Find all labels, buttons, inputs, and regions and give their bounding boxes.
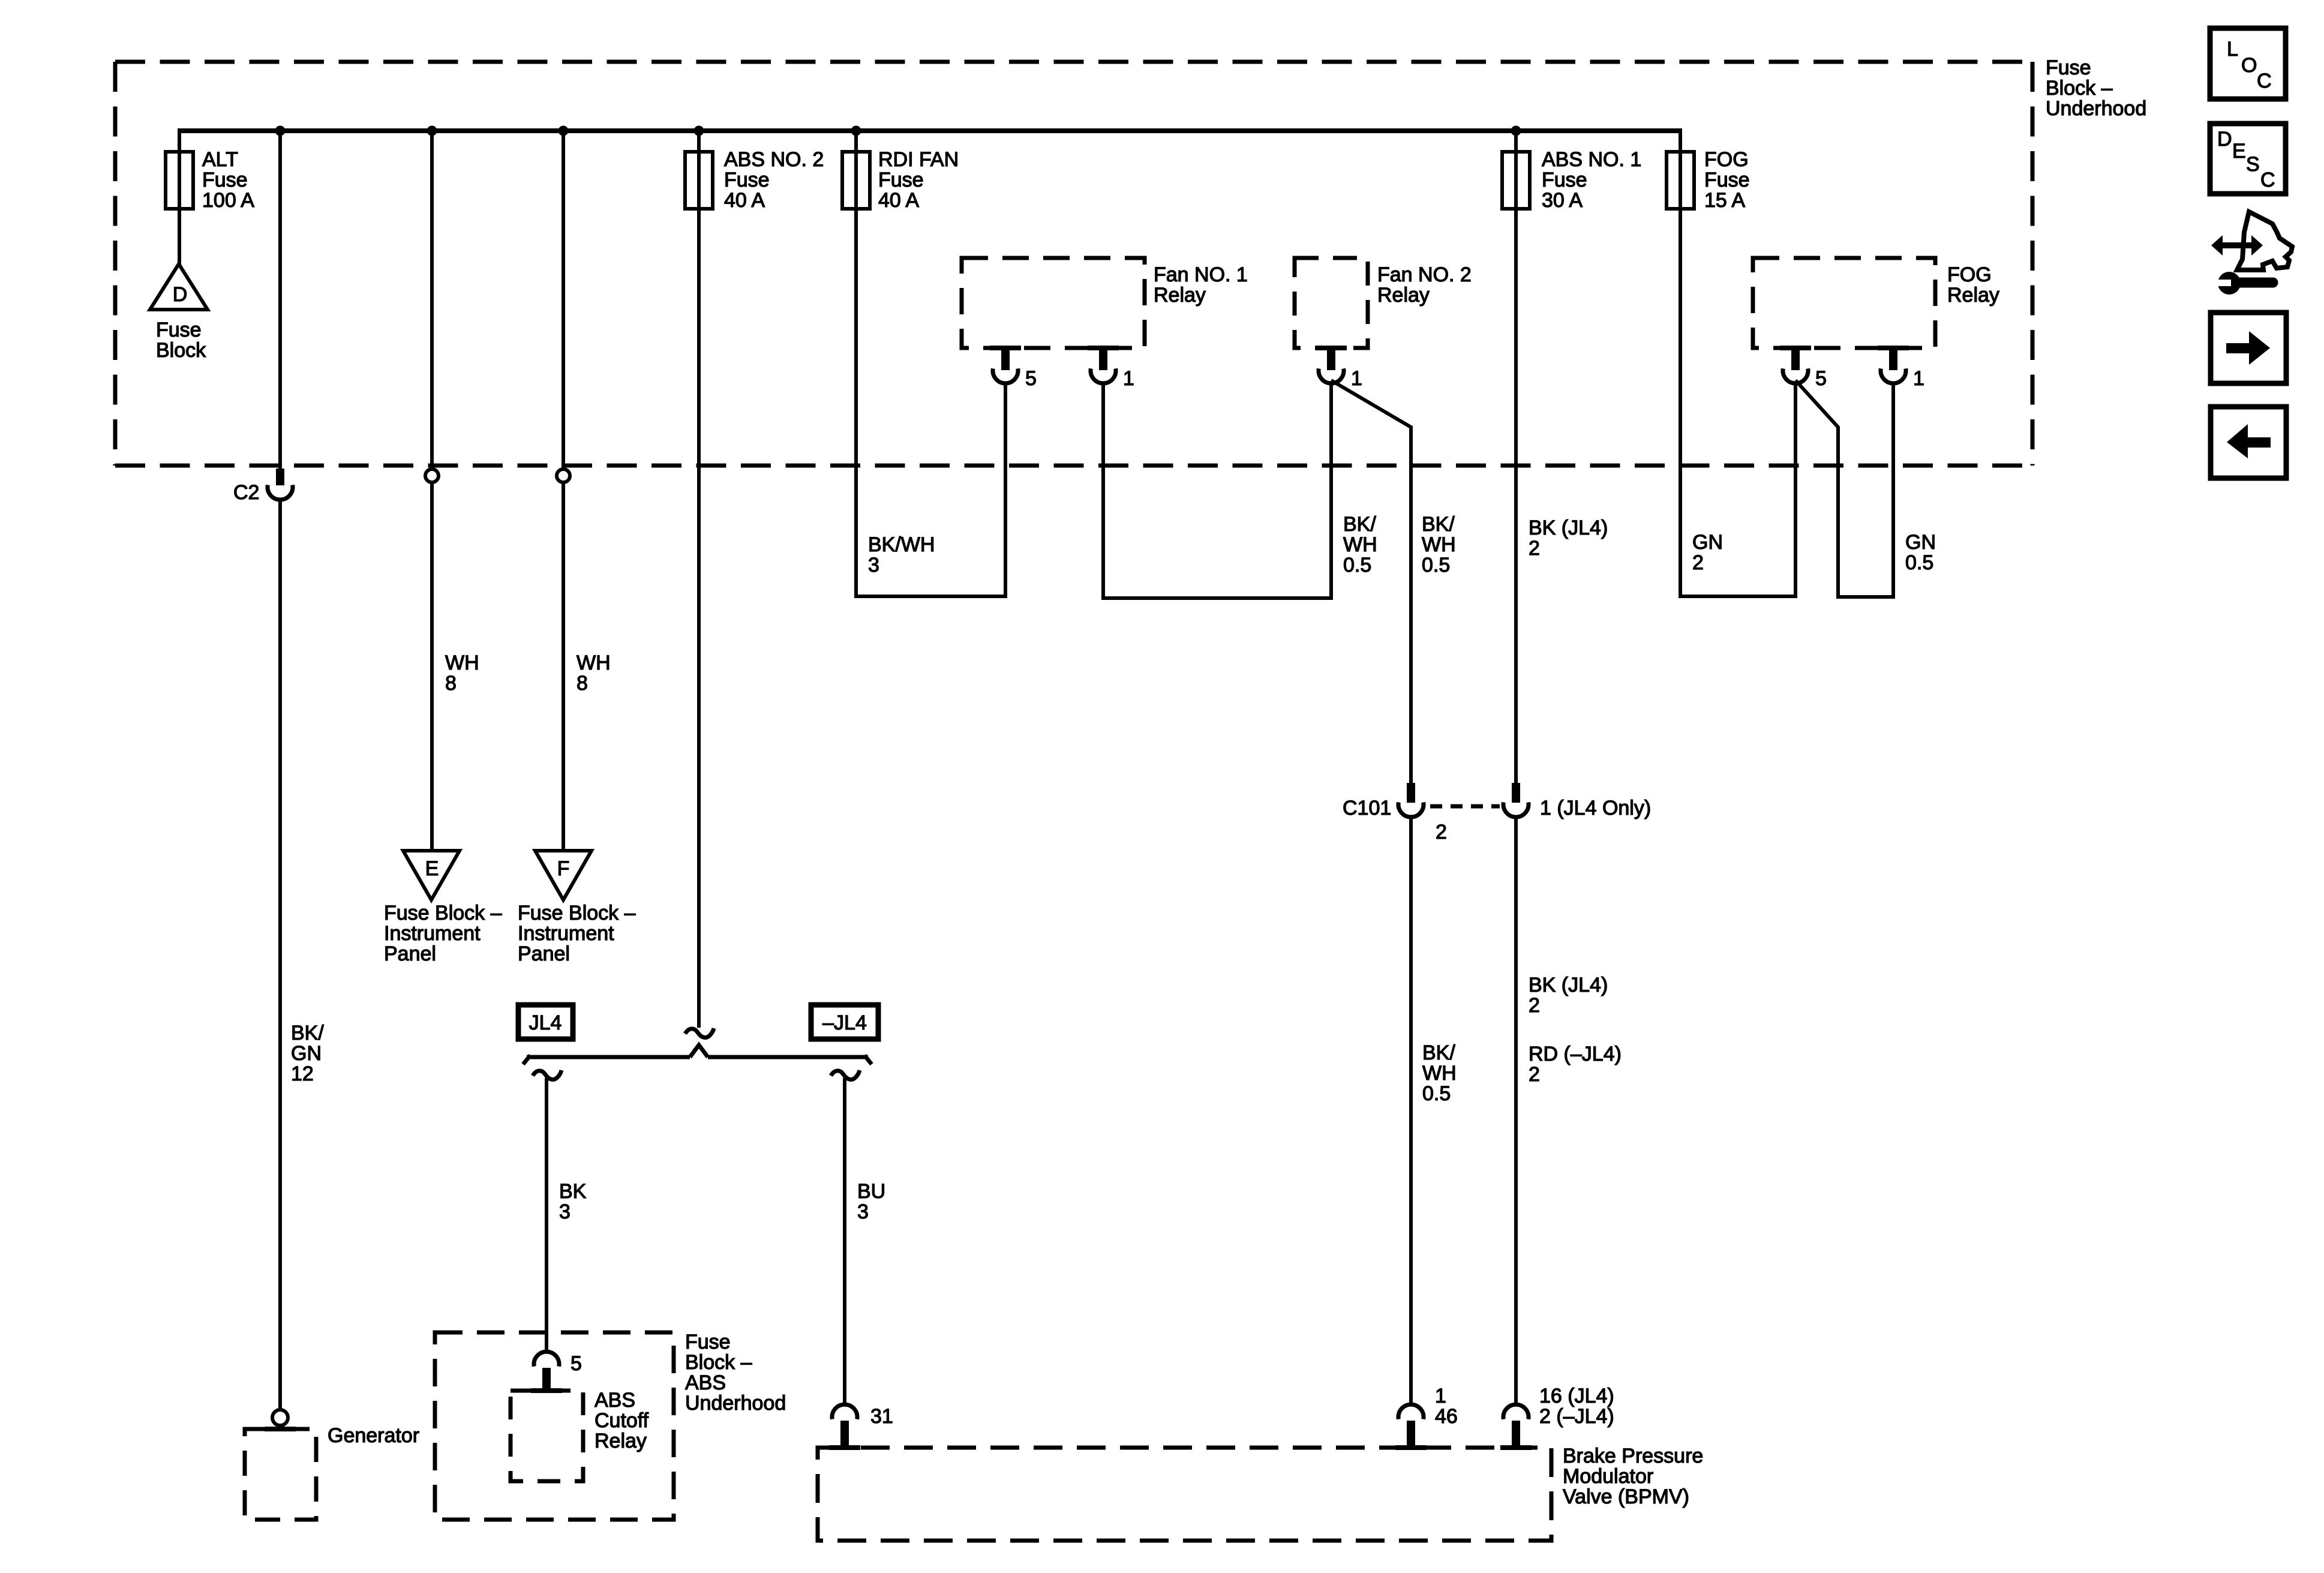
- svg-text:15 A: 15 A: [1704, 189, 1745, 212]
- svg-text:E: E: [2232, 140, 2246, 163]
- BPMV pin base bars: [829, 1445, 1532, 1450]
- wire bus to C2 connector: [278, 131, 282, 470]
- fan no.1 relay pin 1: [1088, 348, 1134, 390]
- svg-text:2: 2: [1436, 821, 1447, 843]
- FOG relay pin 1: [1878, 348, 1924, 390]
- svg-text:Panel: Panel: [384, 942, 436, 965]
- connector BPMV pin 1/46: [1398, 1385, 1458, 1446]
- C101 connector dashed divider: [1430, 804, 1500, 809]
- svg-text:D: D: [173, 283, 188, 306]
- options brace: [523, 1045, 872, 1064]
- label ABS Cutoff Relay: [594, 1389, 649, 1452]
- svg-text:3: 3: [857, 1200, 869, 1223]
- label FOG Relay: [1947, 263, 1999, 307]
- svg-text:2 (–JL4): 2 (–JL4): [1539, 1405, 1614, 1428]
- svg-text:8: 8: [445, 672, 457, 695]
- fuse block underhood dashed box: [115, 62, 2032, 466]
- svg-text:30 A: 30 A: [1542, 189, 1583, 212]
- label ALT Fuse 100 A: [202, 148, 254, 212]
- fuse ABS NO.1 30A: [1502, 152, 1530, 209]
- svg-text:ABS NO. 2: ABS NO. 2: [724, 148, 824, 171]
- svg-text:WH: WH: [1422, 533, 1456, 556]
- svg-text:Fan NO. 1: Fan NO. 1: [1154, 263, 1248, 286]
- svg-text:FOG: FOG: [1704, 148, 1749, 171]
- label BK 3: [559, 1180, 587, 1223]
- svg-text:46: 46: [1435, 1405, 1458, 1428]
- svg-text:Fuse: Fuse: [156, 319, 202, 341]
- fuse RDI FAN 40A: [842, 152, 870, 209]
- fan no.1 relay dashed box: [962, 258, 1145, 348]
- node junction dot RDI FAN: [851, 126, 861, 136]
- svg-text:ABS: ABS: [685, 1371, 726, 1394]
- svg-text:12: 12: [291, 1062, 314, 1085]
- svg-text:Panel: Panel: [518, 942, 570, 965]
- svg-text:40 A: 40 A: [724, 189, 765, 212]
- svg-text:BK/: BK/: [1422, 513, 1455, 536]
- wire C2 to generator: [278, 498, 282, 1411]
- svg-text:BK (JL4): BK (JL4): [1529, 974, 1608, 996]
- connector cup ABS cutoff relay pin 5: [534, 1352, 582, 1391]
- label Fuse Block: [156, 319, 206, 362]
- wire -JL4 branch to BPMV pin 31: [843, 1078, 846, 1406]
- icon car repair with arrow and wrench: [2211, 212, 2292, 295]
- connector BPMV pin 31: [832, 1404, 893, 1446]
- label FOG Fuse 15 A: [1704, 148, 1750, 212]
- svg-text:16 (JL4): 16 (JL4): [1539, 1385, 1614, 1407]
- connector C101 pin 1: [1503, 783, 1529, 817]
- svg-text:Fuse: Fuse: [685, 1331, 731, 1353]
- svg-text:Relay: Relay: [1947, 284, 1999, 307]
- svg-text:1 (JL4 Only): 1 (JL4 Only): [1540, 797, 1651, 819]
- svg-text:5: 5: [571, 1352, 582, 1375]
- fuse FOG 15A: [1667, 152, 1694, 209]
- label BK/WH 0.5 (fan loop wire): [1343, 513, 1377, 577]
- connector C101 pin 2: [1398, 783, 1424, 817]
- icon back arrow box: [2211, 407, 2286, 478]
- label BK/GN 12: [291, 1022, 324, 1085]
- svg-text:WH: WH: [577, 652, 611, 674]
- wire bus to ABS NO.2 fuse: [697, 131, 701, 1028]
- wire fan no.1 pin 1 to fan no.2 pin 1: [1103, 382, 1331, 598]
- svg-text:1: 1: [1123, 367, 1134, 390]
- svg-text:GN: GN: [291, 1042, 322, 1065]
- connector C2 pin: [276, 469, 284, 485]
- label BU 3: [857, 1180, 885, 1223]
- off-page triangle D (Fuse Block): [150, 264, 208, 310]
- node junction dot F: [559, 126, 569, 136]
- svg-text:2: 2: [1692, 551, 1704, 574]
- label Fuse Block - ABS Underhood: [685, 1331, 786, 1415]
- FOG relay pin 5: [1780, 348, 1827, 390]
- label RD (-JL4) 2: [1529, 1043, 1622, 1086]
- svg-text:Instrument: Instrument: [518, 922, 614, 945]
- svg-text:C101: C101: [1343, 797, 1391, 819]
- svg-text:Valve (BPMV): Valve (BPMV): [1563, 1485, 1689, 1508]
- svg-text:FOG: FOG: [1947, 263, 1992, 286]
- svg-text:Fan NO. 2: Fan NO. 2: [1377, 263, 1472, 286]
- svg-text:Instrument: Instrument: [384, 922, 481, 945]
- svg-text:5: 5: [1815, 367, 1827, 390]
- svg-text:Generator: Generator: [328, 1424, 419, 1447]
- svg-text:3: 3: [868, 554, 879, 577]
- svg-text:O: O: [2241, 54, 2257, 77]
- svg-text:F: F: [557, 857, 570, 880]
- label Fuse Block - Instrument Panel (F): [518, 902, 636, 965]
- label WH 8 (E): [445, 652, 479, 695]
- fuse ABS NO.2 40A: [685, 152, 713, 209]
- svg-text:Brake Pressure: Brake Pressure: [1563, 1445, 1703, 1467]
- fuse ALT 100A: [166, 152, 193, 209]
- svg-text:0.5: 0.5: [1422, 554, 1450, 577]
- svg-text:2: 2: [1529, 537, 1540, 560]
- wire JL4 branch to ABS cutoff relay: [545, 1078, 548, 1353]
- off-page triangle E: [403, 851, 460, 900]
- svg-text:L: L: [2227, 38, 2238, 61]
- svg-text:C: C: [2260, 169, 2275, 191]
- ABS cutoff relay pin base bar: [531, 1388, 562, 1393]
- svg-text:ABS NO. 1: ABS NO. 1: [1542, 148, 1641, 171]
- splice option symbol JL4 branch: [533, 1070, 562, 1079]
- wire C101 pin 1 to BPMV: [1514, 815, 1518, 1406]
- svg-text:S: S: [2246, 153, 2260, 176]
- label RDI FAN Fuse 40 A: [878, 148, 959, 212]
- svg-text:40 A: 40 A: [878, 189, 919, 212]
- svg-text:8: 8: [577, 672, 588, 695]
- label GN 2: [1692, 531, 1723, 574]
- label BK/WH 3: [868, 533, 935, 577]
- svg-text:Modulator: Modulator: [1563, 1465, 1653, 1488]
- wire bus to fuse block terminal F: [562, 131, 565, 849]
- RPO label box JL4: [518, 1005, 573, 1039]
- svg-text:31: 31: [870, 1405, 893, 1428]
- label WH 8 (F): [577, 652, 611, 695]
- terminal ring F: [557, 469, 570, 482]
- svg-text:JL4: JL4: [529, 1011, 562, 1034]
- wire bus to RDI FAN fuse: [854, 131, 858, 598]
- svg-text:100 A: 100 A: [202, 189, 254, 212]
- fan no.2 relay pin 1: [1316, 348, 1362, 390]
- svg-text:BK: BK: [559, 1180, 587, 1203]
- svg-text:Fuse: Fuse: [1704, 169, 1750, 191]
- svg-text:Block –: Block –: [2046, 77, 2113, 100]
- wire RDI FAN fuse to fan relay pin 5: [856, 382, 1005, 596]
- svg-text:WH: WH: [445, 652, 479, 674]
- splice option symbol -JL4 branch: [831, 1070, 860, 1079]
- ABS cutoff relay inner dashed box: [511, 1391, 583, 1481]
- fuse block underhood label: [2046, 56, 2146, 120]
- svg-text:C: C: [2257, 70, 2272, 92]
- FOG relay dashed box: [1753, 258, 1935, 348]
- svg-text:Block: Block: [156, 339, 206, 362]
- node junction dot E: [427, 126, 437, 136]
- svg-text:Relay: Relay: [1377, 284, 1430, 307]
- wire bus to ABS NO.1 fuse: [1514, 131, 1518, 784]
- generator terminal base bar: [265, 1427, 296, 1431]
- label Brake Pressure Modulator Valve (BPMV): [1563, 1445, 1703, 1508]
- BPMV dashed box: [818, 1448, 1551, 1541]
- wire fan no.2 pin 1 diagonal to C101: [1331, 380, 1411, 786]
- svg-text:Fuse Block –: Fuse Block –: [384, 902, 502, 924]
- svg-text:Fuse: Fuse: [724, 169, 770, 191]
- splice option symbol on ABS NO.2 wire: [685, 1028, 714, 1037]
- svg-text:BK/: BK/: [1343, 513, 1376, 536]
- label BK/WH 0.5 (C101 wire): [1422, 513, 1456, 577]
- generator terminal ring: [272, 1410, 288, 1425]
- RPO label box -JL4: [811, 1005, 878, 1039]
- label ABS NO.1 Fuse 30 A: [1542, 148, 1641, 212]
- svg-text:2: 2: [1529, 1063, 1540, 1086]
- svg-text:GN: GN: [1692, 531, 1723, 554]
- svg-text:–JL4: –JL4: [822, 1011, 867, 1034]
- fan no.1 relay pin 5: [990, 348, 1037, 390]
- wire C101 pin 2 to BPMV: [1409, 815, 1413, 1406]
- connector BPMV pin 16/2: [1503, 1385, 1614, 1446]
- svg-text:3: 3: [559, 1200, 571, 1223]
- icon DESC box: [2210, 124, 2286, 194]
- svg-text:1: 1: [1435, 1385, 1446, 1407]
- svg-text:0.5: 0.5: [1343, 554, 1371, 577]
- label Fuse Block - Instrument Panel (E): [384, 902, 502, 965]
- label BK (JL4) 2 (ABS NO.1 wire): [1529, 517, 1608, 560]
- svg-text:C2: C2: [233, 481, 259, 504]
- svg-text:1: 1: [1913, 367, 1924, 390]
- off-page triangle F: [535, 851, 591, 900]
- generator dashed box: [245, 1429, 316, 1520]
- power bus wire: [179, 128, 1680, 133]
- svg-text:0.5: 0.5: [1422, 1082, 1451, 1105]
- svg-text:2: 2: [1529, 994, 1540, 1017]
- svg-text:E: E: [425, 857, 439, 880]
- svg-text:WH: WH: [1343, 533, 1377, 556]
- wire bus corner to FOG fuse: [1679, 128, 1682, 598]
- svg-text:BK/: BK/: [291, 1022, 324, 1044]
- fuse block ABS underhood dashed box: [435, 1332, 674, 1520]
- svg-text:Relay: Relay: [1154, 284, 1206, 307]
- label Fan NO.1 Relay: [1154, 263, 1248, 307]
- label ABS NO.2 Fuse 40 A: [724, 148, 824, 212]
- svg-text:Fuse: Fuse: [2046, 56, 2091, 79]
- svg-text:Block –: Block –: [685, 1351, 752, 1374]
- svg-text:D: D: [2217, 128, 2232, 151]
- svg-text:Fuse: Fuse: [878, 169, 924, 191]
- svg-text:Fuse: Fuse: [1542, 169, 1587, 191]
- svg-text:Relay: Relay: [594, 1430, 647, 1452]
- svg-text:Fuse: Fuse: [202, 169, 248, 191]
- fan no.2 relay dashed box: [1295, 258, 1368, 348]
- wire FOG fuse to FOG relay pin 5: [1679, 382, 1795, 596]
- wire FOG relay pin 5 diagonal loop to pin 1: [1795, 380, 1893, 597]
- svg-text:5: 5: [1025, 367, 1037, 390]
- label BK (JL4) 2 (below C101): [1529, 974, 1608, 1017]
- icon LOC box: [2210, 28, 2286, 99]
- svg-text:RDI FAN: RDI FAN: [878, 148, 959, 171]
- svg-text:RD (–JL4): RD (–JL4): [1529, 1043, 1622, 1065]
- svg-text:WH: WH: [1422, 1062, 1457, 1085]
- node junction dot ABS NO.2: [694, 126, 704, 136]
- connector C2 cup: [268, 485, 293, 500]
- node junction dot ABS NO.1: [1511, 126, 1521, 136]
- wire bus to fuse block terminal E: [430, 131, 434, 849]
- svg-text:BK (JL4): BK (JL4): [1529, 517, 1608, 539]
- icon forward arrow box: [2211, 313, 2286, 383]
- label GN 0.5: [1905, 531, 1936, 574]
- svg-text:Underhood: Underhood: [2046, 97, 2146, 120]
- svg-text:BK/: BK/: [1422, 1041, 1455, 1064]
- svg-text:GN: GN: [1905, 531, 1936, 554]
- svg-text:BK/WH: BK/WH: [868, 533, 935, 556]
- svg-text:ALT: ALT: [202, 148, 238, 171]
- label BK/WH 0.5 (below C101): [1422, 1041, 1457, 1105]
- node junction dot C2: [275, 126, 286, 136]
- svg-text:ABS: ABS: [594, 1389, 635, 1412]
- wire bus to ALT fuse: [178, 128, 181, 266]
- svg-text:BU: BU: [857, 1180, 885, 1203]
- svg-text:0.5: 0.5: [1905, 551, 1933, 574]
- terminal ring E: [425, 469, 439, 482]
- svg-text:Underhood: Underhood: [685, 1392, 786, 1415]
- svg-text:Fuse Block –: Fuse Block –: [518, 902, 636, 924]
- svg-text:1: 1: [1351, 367, 1362, 390]
- svg-text:Cutoff: Cutoff: [594, 1409, 649, 1432]
- label Fan NO.2 Relay: [1377, 263, 1472, 307]
